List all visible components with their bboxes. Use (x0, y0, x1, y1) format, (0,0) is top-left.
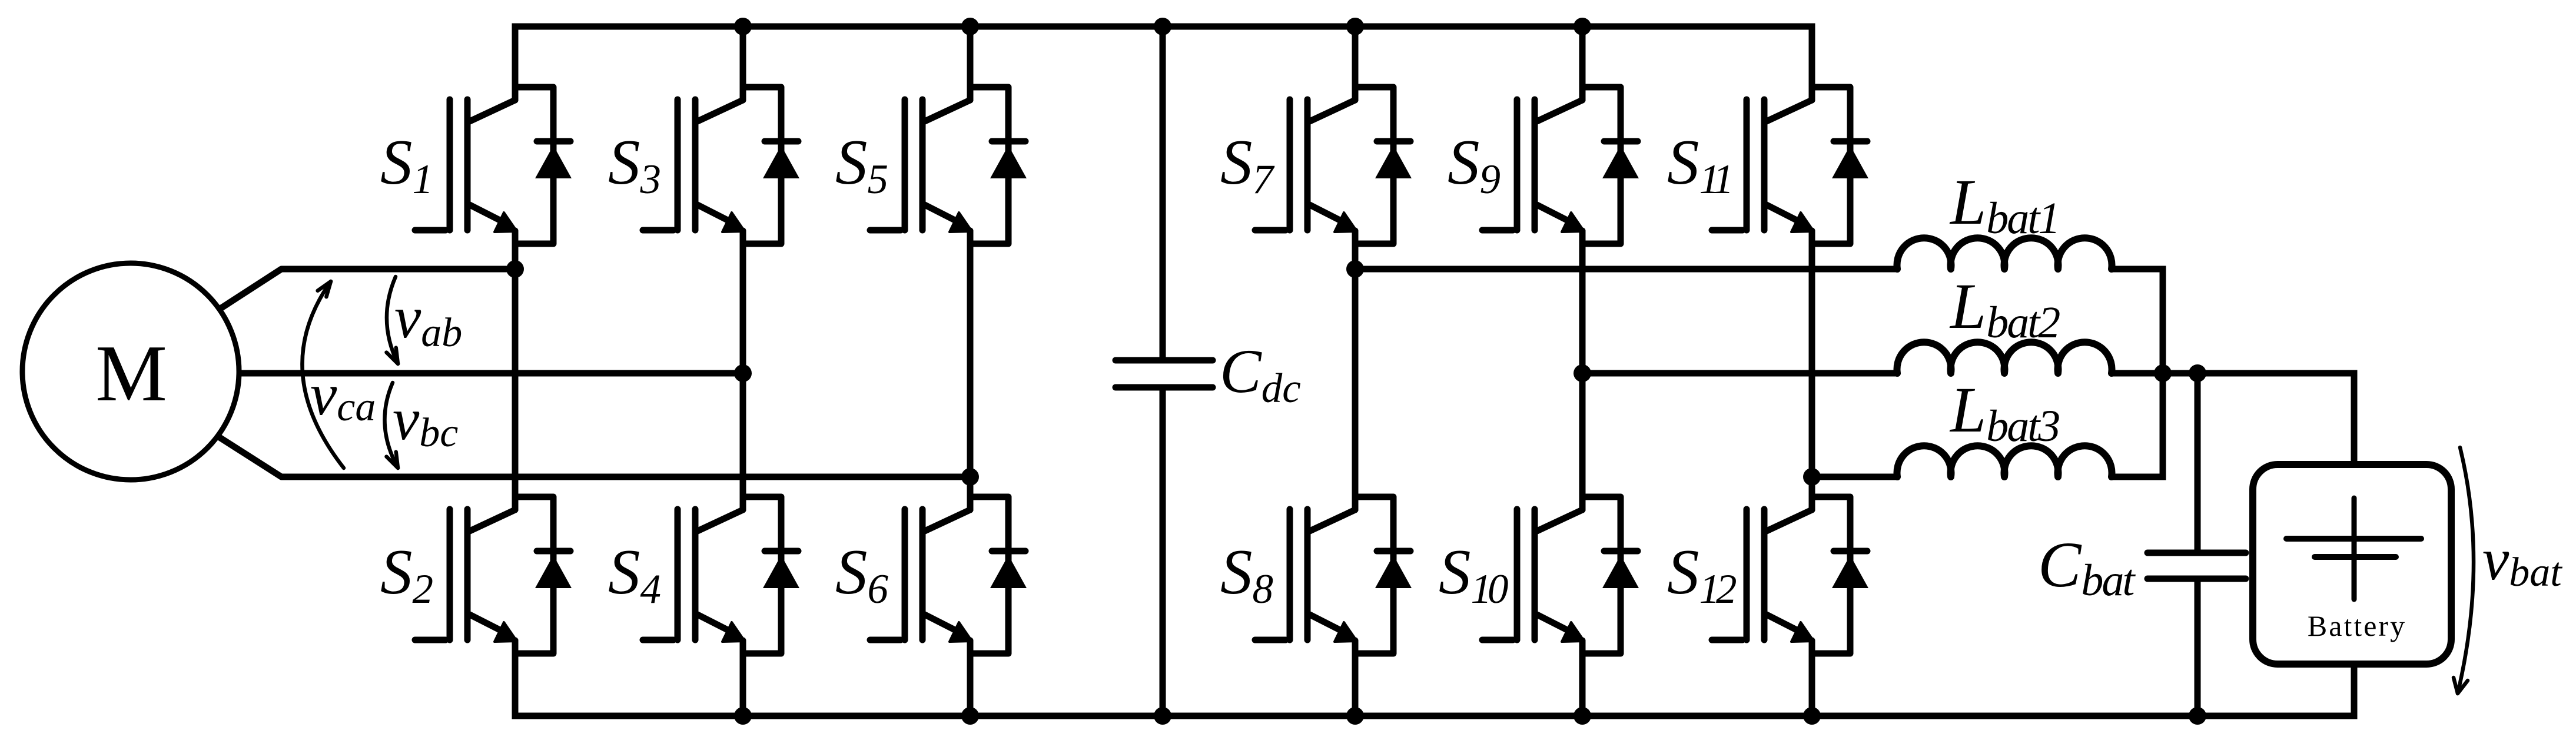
transistor S10 (1439, 497, 1639, 716)
node C_bat bottom (2189, 707, 2206, 725)
wire S11 output to L_bat3 (1812, 474, 1897, 480)
node top rail C_dc (1154, 18, 1171, 35)
svg-text:Cbat: Cbat (2038, 529, 2136, 605)
svg-text:S2: S2 (380, 536, 433, 612)
svg-text:S5: S5 (835, 127, 888, 203)
transistor S12 (1667, 497, 1868, 716)
wire leg f (1809, 231, 1815, 510)
wire bottom DC rail (515, 641, 2354, 716)
node top rail leg c (961, 18, 979, 35)
wire inductor bus (2160, 269, 2166, 477)
node inductor bus (2154, 364, 2172, 382)
node C_bat top (2189, 364, 2206, 382)
node top rail leg b (734, 18, 752, 35)
node phase a (506, 260, 524, 278)
wire leg b (740, 231, 746, 510)
transistor S8 (1220, 497, 1412, 716)
svg-text:S4: S4 (608, 536, 661, 612)
transistor S1 (380, 26, 572, 244)
node top rail leg d (1346, 18, 1364, 35)
svg-text:Lbat2: Lbat2 (1949, 270, 2060, 347)
svg-text:S6: S6 (835, 536, 889, 612)
node bottom rail leg d (1346, 707, 1364, 725)
svg-text:S3: S3 (608, 127, 661, 203)
node bottom rail leg c (961, 707, 979, 725)
arrow v_bat (2454, 447, 2474, 693)
svg-text:vbat: vbat (2482, 526, 2562, 595)
svg-text:S11: S11 (1667, 127, 1729, 203)
node S11 output (1803, 468, 1821, 486)
transistor S3 (608, 26, 799, 244)
svg-text:S8: S8 (1220, 536, 1273, 612)
node bottom rail leg f (1803, 707, 1821, 725)
svg-text:Cdc: Cdc (1220, 337, 1301, 412)
node phase c (961, 468, 979, 486)
wire top DC rail (515, 26, 1812, 100)
svg-text:S9: S9 (1448, 127, 1501, 203)
node phase b (734, 364, 752, 382)
transistor S6 (835, 497, 1027, 716)
wire motor phase a (221, 269, 515, 308)
svg-text:S12: S12 (1667, 536, 1736, 612)
node S7 output (1346, 260, 1364, 278)
svg-text:S10: S10 (1439, 536, 1508, 612)
wire L_bat2 out (2112, 370, 2163, 377)
capacitor C_dc (1116, 26, 1301, 716)
node top rail leg e (1574, 18, 1591, 35)
svg-text:S7: S7 (1220, 127, 1275, 203)
wire leg d (1352, 231, 1359, 510)
wire battery negative terminal (2351, 664, 2358, 716)
wire motor phase c (220, 437, 970, 477)
wire leg c (967, 231, 974, 510)
svg-text:Lbat3: Lbat3 (1949, 374, 2059, 451)
wire leg e (1579, 231, 1586, 510)
node S9 output (1574, 364, 1591, 382)
node bottom rail leg b (734, 707, 752, 725)
svg-text:M: M (95, 328, 167, 418)
motor M (22, 263, 239, 480)
wire S7 output to L_bat1 (1355, 266, 1897, 273)
svg-text:Lbat1: Lbat1 (1949, 166, 2059, 243)
transistor S7 (1220, 26, 1412, 244)
arrow v_bc (384, 383, 398, 468)
battery (2253, 464, 2451, 664)
inductor L_bat3 (1897, 374, 2112, 477)
transistor S9 (1448, 26, 1639, 244)
wire bus to battery (2163, 373, 2354, 464)
transistor S2 (380, 497, 572, 716)
wire motor phase b (241, 370, 743, 377)
svg-text:vab: vab (394, 284, 462, 356)
svg-text:S1: S1 (380, 127, 433, 203)
wire L_bat1 out (2112, 269, 2163, 373)
node bottom rail leg e (1574, 707, 1591, 725)
wire L_bat3 out (2112, 373, 2163, 477)
transistor S4 (608, 497, 799, 716)
wire battery positive terminal (2351, 373, 2358, 464)
inductor L_bat2 (1897, 270, 2112, 373)
svg-text:Battery: Battery (2308, 609, 2406, 642)
svg-text:vbc: vbc (393, 386, 458, 456)
wire leg a (512, 231, 519, 510)
inductor L_bat1 (1897, 166, 2112, 269)
transistor S11 (1667, 26, 1868, 244)
capacitor C_bat (2038, 373, 2246, 716)
transistor S5 (835, 26, 1027, 244)
arrow v_ab (387, 277, 399, 364)
arrow v_ca (302, 281, 344, 468)
wire S9 output to L_bat2 (1582, 370, 1897, 377)
node bottom rail C_dc (1154, 707, 1171, 725)
